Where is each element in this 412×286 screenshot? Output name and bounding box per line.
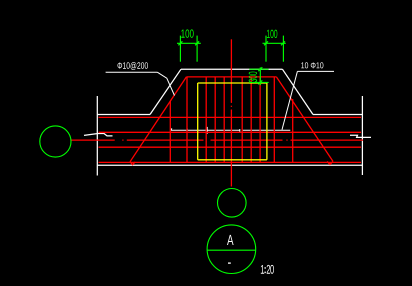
hidden slab top bar under haunch (white ticked line) bbox=[171, 127, 290, 134]
stirrup leg 187 bbox=[186, 77, 188, 162]
stirrup leg 215 bbox=[214, 77, 216, 162]
horizontal axis dot 1 bbox=[122, 139, 123, 141]
vertical axis dash 1 bbox=[230, 39, 232, 103]
leader line for phi10@200 bbox=[158, 72, 175, 95]
slab bottom line bbox=[97, 164, 362, 166]
stirrup leg 260 bbox=[259, 77, 261, 162]
section mark divider bbox=[207, 249, 256, 251]
section letter A bbox=[227, 235, 234, 245]
stirrup leg 206 bbox=[205, 77, 207, 162]
dim 300 line vertical bbox=[259, 67, 261, 85]
left cut line bbox=[96, 96, 98, 176]
vertical axis dash 2 bbox=[230, 110, 232, 187]
dim left 100 ext line a bbox=[179, 36, 181, 62]
horizontal axis dash 3 bbox=[211, 139, 283, 141]
dim text 100 right bbox=[267, 30, 277, 38]
axis bubble left (green circle) bbox=[40, 126, 71, 157]
yellow box right side bbox=[266, 83, 268, 160]
edge leg left 170 bbox=[169, 101, 171, 163]
concrete slab outline (white) bbox=[84, 69, 371, 175]
dim left 100 line bbox=[177, 42, 201, 44]
right cut line bbox=[361, 96, 363, 175]
dim 300 tick bottom bbox=[258, 80, 262, 84]
scale text 1:20 bbox=[261, 265, 274, 274]
edge leg right 293 bbox=[292, 99, 294, 162]
stirrup leg 251 bbox=[250, 77, 252, 162]
horizontal axis dash 1 bbox=[71, 139, 115, 141]
vertical axis dot bbox=[230, 106, 232, 107]
ticked bar segment 2 bbox=[243, 129, 291, 131]
bent bar right diagonal bbox=[276, 77, 333, 161]
dim right 100 tick b bbox=[281, 41, 285, 45]
dim 300 ext bottom bbox=[249, 81, 268, 83]
leader line for 10phi10 bbox=[282, 71, 297, 129]
leader underline for phi10@200 bbox=[106, 71, 158, 73]
slab bar A bbox=[99, 116, 362, 118]
bar start tick bbox=[170, 128, 173, 130]
dim left 100 tick b bbox=[195, 41, 199, 45]
slab top right segment bbox=[313, 114, 362, 116]
axis bubble bottom (green circle) bbox=[218, 189, 247, 218]
ticked bar segment 1 bbox=[171, 129, 240, 131]
yellow box left side bbox=[197, 83, 199, 160]
section mark circle bbox=[207, 225, 256, 274]
leader underline for 10phi10 bbox=[297, 70, 334, 72]
haunch top line bbox=[181, 68, 282, 70]
bar tick at 187 bbox=[186, 129, 188, 131]
dimensions (green) bbox=[177, 36, 286, 86]
horizontal axis dot 2 bbox=[286, 139, 287, 141]
dim right 100 ext line a bbox=[265, 36, 267, 62]
dim left 100 tick a bbox=[178, 41, 182, 45]
slab bar D bbox=[99, 161, 362, 163]
stirrup leg 224 bbox=[223, 77, 225, 162]
bent bar left hook bbox=[130, 162, 135, 165]
label phi10@200 bbox=[117, 62, 147, 70]
yellow box bottom bbox=[198, 159, 267, 161]
haunch left slope bbox=[150, 69, 181, 114]
right break symbol bbox=[350, 135, 371, 137]
dim text 300 rotated bbox=[249, 72, 257, 82]
bent bar right hook bbox=[327, 161, 333, 164]
bar tick at 240 bbox=[239, 129, 241, 133]
dim right 100 tick a bbox=[264, 41, 268, 45]
rebar (red) bbox=[71, 39, 363, 186]
section number dash bbox=[228, 262, 231, 264]
dim 300 tick top bbox=[258, 67, 262, 71]
horizontal axis dash 2 bbox=[127, 139, 204, 141]
slab top left segment bbox=[97, 114, 150, 116]
label 10 phi10 bbox=[301, 62, 323, 68]
bar tick at 207 bbox=[206, 127, 208, 134]
left break symbol bbox=[84, 134, 113, 136]
haunch right slope bbox=[282, 69, 313, 114]
dim 300 ext top bbox=[249, 68, 268, 70]
inner box rebar (yellow) bbox=[198, 83, 267, 160]
slab bar C bbox=[99, 146, 362, 148]
dim left 100 ext line b bbox=[196, 36, 198, 62]
stirrup leg 274 bbox=[273, 77, 275, 162]
horizontal axis dash 4 bbox=[291, 139, 364, 141]
stirrup leg 242 bbox=[241, 77, 243, 162]
dim right 100 line bbox=[263, 42, 286, 44]
slab bar B bbox=[99, 131, 361, 133]
dim text 100 left bbox=[181, 29, 193, 37]
dim right 100 ext line b bbox=[282, 36, 284, 62]
bent bar left diagonal bbox=[130, 77, 186, 162]
yellow box top bbox=[198, 82, 267, 84]
top bar of haunch bbox=[186, 76, 276, 78]
